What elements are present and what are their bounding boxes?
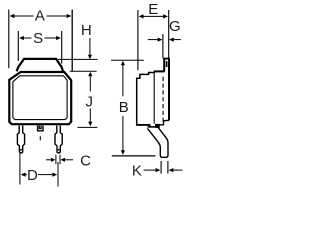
svg-text:J: J	[86, 94, 94, 111]
center lead stub	[38, 126, 43, 131]
side view body rear bottom steps	[157, 120, 169, 125]
side view tab	[163, 58, 170, 120]
center lead notch	[39, 126, 41, 129]
left lead	[17, 126, 24, 153]
side view hidden tab dashed line	[162, 77, 164, 123]
svg-text:S: S	[33, 30, 43, 47]
seating plane line	[112, 155, 156, 157]
front view tab	[17, 59, 63, 71]
svg-text:B: B	[119, 99, 129, 116]
side view body front face	[136, 78, 138, 126]
dimension H	[58, 22, 98, 59]
dimension D	[20, 154, 58, 187]
right lead dimple	[58, 149, 60, 151]
front view body inner outline	[13, 76, 67, 120]
left lead dimple	[20, 149, 22, 151]
dimension C	[46, 153, 91, 170]
svg-text:K: K	[132, 163, 142, 180]
dimension E	[138, 1, 169, 70]
dimension S	[18, 30, 61, 64]
side view lead root blob	[155, 124, 160, 128]
dimension J	[70, 71, 98, 127]
dimension A	[9, 8, 72, 72]
side view bottom notch step	[148, 125, 151, 127]
svg-text:D: D	[27, 167, 38, 184]
dimension B	[111, 60, 144, 155]
side view body bottom edge	[136, 124, 150, 126]
svg-text:C: C	[80, 153, 91, 170]
dimension K	[132, 161, 183, 180]
side view lead and foot	[148, 126, 169, 157]
dimension G	[148, 18, 181, 58]
side view mold parting line	[153, 73, 155, 124]
svg-text:A: A	[35, 8, 45, 25]
center lead dash mark	[39, 136, 41, 140]
side view body top profile with steps	[137, 71, 165, 78]
svg-text:G: G	[169, 18, 181, 35]
side view bottom notch floor	[148, 126, 158, 128]
svg-text:E: E	[148, 1, 158, 18]
front view body outer outline	[9, 72, 71, 124]
right lead	[55, 126, 62, 153]
svg-text:H: H	[81, 22, 92, 39]
